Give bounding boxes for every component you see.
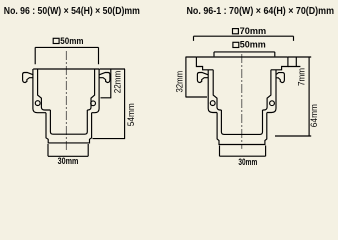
right skirt part 96 (92, 69, 100, 113)
dimension line 64mm part 96-1 (275, 57, 311, 136)
extension lines 30mm part 96-1 (220, 146, 266, 157)
dimension line 32mm part 96-1 (186, 57, 208, 97)
right hole part 96 (91, 101, 96, 106)
right upper wall part 96-1 (271, 57, 288, 70)
svg-text:30mm: 30mm (238, 157, 257, 167)
left hole part 96 (35, 101, 40, 106)
rim top part 96-1 (196, 56, 288, 58)
left skirt part 96 (33, 69, 46, 113)
lower body part 96-1 (217, 113, 267, 145)
lower body part 96 (46, 113, 92, 143)
dimension line 54mm part 96 (93, 69, 126, 139)
right mid wall part 96-1 (263, 70, 271, 110)
svg-text:50mm: 50mm (240, 40, 266, 50)
label square-50mm top (53, 38, 59, 43)
left upper wall part 96-1 (196, 57, 213, 70)
center axis part 96-1 (241, 54, 243, 149)
dimension line 50mm top (35, 47, 98, 64)
dimension line 50mm part 96-1 (214, 52, 275, 57)
extension lines 30mm part 96 (48, 144, 88, 156)
left mid wall part 96-1 (213, 70, 221, 110)
svg-text:No. 96 : 50(W) × 54(H) × 50(D): No. 96 : 50(W) × 54(H) × 50(D)mm (4, 6, 140, 17)
left plate part 96-1 (208, 70, 217, 113)
svg-text:70mm: 70mm (240, 26, 267, 36)
svg-text:22mm: 22mm (112, 71, 122, 94)
svg-text:30mm: 30mm (58, 156, 79, 166)
rim top part 96 (33, 68, 99, 70)
svg-text:No. 96-1 : 70(W) × 64(H) × 70(: No. 96-1 : 70(W) × 64(H) × 70(D)mm (187, 6, 335, 17)
right inner wall part 96 (87, 69, 94, 110)
svg-text:64mm: 64mm (309, 104, 319, 127)
dimension line 22mm part 96 (101, 69, 112, 98)
left inner wall part 96 (38, 69, 51, 110)
label square-70mm top (233, 29, 239, 34)
label square-50mm part 96-1 (233, 42, 239, 47)
right hook part 96 (99, 73, 110, 83)
dimension line 70mm (194, 36, 294, 41)
right plate part 96-1 (267, 70, 276, 113)
svg-text:50mm: 50mm (60, 36, 83, 46)
svg-text:7mm: 7mm (296, 68, 306, 86)
inner bottom part 96 (50, 110, 87, 134)
svg-text:32mm: 32mm (174, 71, 184, 93)
svg-text:54mm: 54mm (126, 103, 136, 126)
right hole part 96-1 (270, 101, 275, 106)
left hole part 96-1 (210, 101, 215, 106)
left hook part 96-1 (197, 73, 208, 83)
left hook part 96 (23, 73, 34, 83)
extension line rim right part 96 (100, 68, 126, 70)
dimension line 7mm part 96-1 (288, 57, 300, 67)
center axis part 96 (65, 51, 67, 151)
right hook part 96-1 (276, 73, 284, 83)
inner bottom part 96-1 (221, 110, 262, 134)
